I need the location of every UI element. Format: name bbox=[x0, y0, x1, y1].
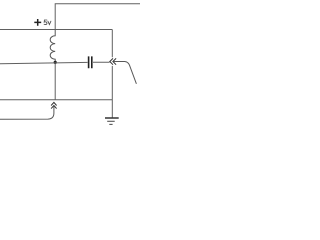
wire +5v supply rail bbox=[0, 29, 112, 31]
wire top rail bbox=[55, 4, 140, 30]
annotation arrow right head bbox=[110, 58, 116, 64]
node junction dot bbox=[54, 61, 57, 64]
+5v plus sign bbox=[34, 19, 41, 26]
ground bar 1 bbox=[105, 117, 119, 119]
annotation arrow bottom tail bbox=[0, 106, 54, 119]
wire mid right bbox=[93, 61, 110, 63]
wire below node bbox=[54, 64, 56, 100]
inductor L1 bbox=[50, 30, 55, 62]
wire bottom rail bbox=[0, 99, 112, 101]
+5v label text "5v" drawn as vector glyphs bbox=[44, 20, 47, 25]
annotation arrow bottom head bbox=[51, 102, 57, 108]
ground stem bbox=[111, 100, 113, 118]
ground bar 2 bbox=[107, 120, 115, 122]
annotation arrow right tail bbox=[114, 62, 137, 84]
ground bar 3 bbox=[109, 123, 112, 125]
capacitor C1 plates bbox=[89, 56, 92, 68]
wire right vertical drop bbox=[111, 30, 113, 100]
wire mid left bbox=[0, 62, 88, 63]
